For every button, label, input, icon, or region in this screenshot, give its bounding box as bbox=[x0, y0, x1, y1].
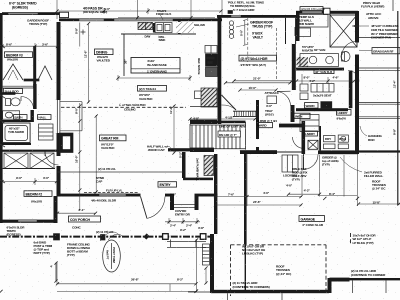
front wall right of entry door bbox=[165, 194, 174, 197]
window bedroom3 top bbox=[8, 13, 38, 15]
stair rail with balusters bbox=[233, 111, 257, 117]
stair bottom wall bbox=[168, 148, 190, 151]
bedroom2 door arc bbox=[45, 152, 59, 166]
hall closet bottom wall bbox=[279, 124, 304, 128]
window wallC bbox=[231, 15, 241, 17]
hdr bar label bbox=[239, 55, 277, 61]
wall left exterior bbox=[0, 13, 3, 223]
mudroom lockers bbox=[282, 155, 298, 172]
ward closet wall vertical x256 bbox=[256, 100, 259, 139]
ward label bbox=[305, 103, 319, 109]
wall main left vertical (dining/bedrooms divider) bbox=[57, 22, 61, 107]
center dims 7-6 4-0 bbox=[215, 196, 302, 198]
bedrm2 label bbox=[24, 191, 52, 197]
mbath bottom wall bbox=[296, 68, 344, 71]
bath label bbox=[14, 115, 28, 120]
porch beam line bbox=[0, 236, 214, 238]
wall B top main bbox=[59, 18, 222, 21]
dim vertical great rm right bbox=[173, 105, 175, 154]
dining west open rail bbox=[57, 100, 61, 133]
window wallB 2 bbox=[114, 19, 173, 21]
fridge cabinet boxes bbox=[205, 46, 217, 54]
bedroom2 dim bbox=[2, 181, 57, 183]
fireplace bbox=[60, 133, 74, 153]
wic bottom wall bbox=[296, 108, 348, 111]
laundry label bbox=[337, 110, 352, 116]
mbath dims bbox=[296, 80, 355, 82]
kitchen hdr boxed label bbox=[138, 86, 167, 92]
dim vertical dining bbox=[88, 23, 90, 103]
closet wall x349 bbox=[349, 71, 353, 109]
connector wall A-B bbox=[60, 12, 69, 17]
garage entry door arc bbox=[304, 155, 319, 170]
kitchen south edge line bbox=[190, 106, 221, 108]
entry north wall bbox=[183, 178, 213, 181]
header tick box top bbox=[228, 11, 233, 14]
right border wall bbox=[397, 11, 399, 205]
great room vault dashed centerline bbox=[61, 106, 186, 108]
dim line bedroom3 bbox=[2, 45, 58, 47]
porch dim 8-1 bbox=[58, 212, 97, 214]
cross mark bbox=[81, 31, 86, 33]
bath top wall bbox=[0, 93, 15, 95]
garage top wall thick bbox=[303, 150, 358, 154]
vanity hatched corner bbox=[297, 57, 309, 67]
dim 4ft porch bbox=[55, 263, 57, 282]
hall bath door arc bbox=[21, 97, 34, 110]
dim line below kitchen top bbox=[118, 77, 190, 79]
bedroom2 right wall bbox=[54, 196, 58, 223]
counter divider bbox=[178, 21, 181, 33]
garage sidelight ladder bbox=[203, 244, 210, 265]
ward label 2 bbox=[257, 123, 273, 128]
island bbox=[131, 58, 180, 74]
stair treads bbox=[190, 122, 246, 150]
oven stack black bbox=[206, 54, 218, 66]
tub bbox=[3, 123, 31, 143]
bedroom2 closet doors bbox=[4, 153, 28, 169]
front wall great room bbox=[58, 194, 141, 197]
bedroom2 top wall bbox=[0, 150, 58, 152]
dashed tray line vertical bbox=[276, 28, 278, 79]
label 42 van bbox=[314, 70, 334, 74]
garage roof dashed outline bbox=[231, 233, 351, 296]
cooktop hatched boxes bbox=[138, 22, 153, 29]
window wallD bbox=[302, 11, 322, 13]
bedroom3 bifold doors right bbox=[38, 66, 52, 80]
window bedroom2 front bbox=[18, 220, 37, 222]
dashed ceiling line right room bbox=[247, 18, 249, 62]
half wall leader bbox=[167, 146, 171, 148]
window label bar wallD bbox=[300, 7, 323, 11]
label dining bbox=[95, 49, 114, 55]
dim extension ticks bedroom3 bbox=[34, 43, 36, 49]
porch slab edge entry bbox=[174, 204, 195, 206]
post detail oval bbox=[103, 240, 121, 272]
breezeway lines bottom bbox=[188, 291, 211, 293]
rod label bbox=[4, 89, 23, 94]
garage label bbox=[299, 216, 325, 222]
dim line top bbox=[57, 10, 222, 12]
dim line above wall B bbox=[118, 17, 215, 19]
dim vert right room bbox=[244, 20, 246, 45]
garage door jamb lines bbox=[227, 293, 229, 300]
bottom long dims bbox=[57, 283, 197, 285]
laundry cabinet bbox=[300, 115, 319, 132]
bedrm3 label bbox=[5, 52, 33, 58]
bath storage labeled box bbox=[298, 15, 329, 28]
kitchen counter front edge bbox=[121, 33, 196, 35]
porch post near oval bbox=[101, 235, 106, 241]
column detail circles bbox=[229, 21, 233, 25]
breezeway wall vertical bbox=[244, 154, 247, 244]
entry porch column left bbox=[170, 197, 174, 211]
master toilet bbox=[341, 52, 350, 62]
attic access rect bbox=[267, 96, 277, 104]
long wall y150 segment center bbox=[240, 150, 277, 154]
stairs dn label bbox=[218, 131, 241, 137]
window front great room bbox=[99, 194, 126, 196]
shower curbless with X bbox=[330, 15, 357, 47]
hall closet wall vertical bbox=[285, 18, 287, 44]
kitchen sink double bbox=[155, 23, 172, 33]
hall label bbox=[38, 115, 52, 120]
dim vertical interior x96 bbox=[95, 115, 97, 193]
closet sill dark bbox=[24, 79, 39, 81]
entry dims bbox=[165, 221, 200, 223]
garage top dims bbox=[288, 193, 320, 195]
bath wall above tub bbox=[0, 120, 33, 122]
wall top bedroom3 bbox=[2, 12, 59, 15]
stairs dim bbox=[190, 118, 256, 120]
wall C upper right bbox=[217, 15, 298, 18]
entry steps bbox=[167, 241, 206, 243]
garage left wall lower bbox=[210, 234, 214, 293]
dining built-in buffet bbox=[60, 101, 82, 103]
entry door leaf and arc bbox=[141, 197, 148, 219]
pantry side box bbox=[195, 91, 202, 99]
wall right main vertical bbox=[355, 11, 359, 154]
closet rods right of wall bbox=[359, 37, 400, 39]
nightstand boxes bbox=[300, 84, 308, 91]
garage top wall thin right bbox=[358, 150, 400, 152]
entry west wall bbox=[182, 152, 186, 178]
garage bottom wall bbox=[211, 290, 329, 293]
wall kitchen right vertical bbox=[218, 17, 222, 124]
closet/bath wall vertical x34 bbox=[33, 46, 36, 88]
flr up lvl dashes bbox=[84, 191, 138, 193]
mbath door arc bbox=[342, 42, 356, 56]
wall D top far right bbox=[296, 11, 358, 14]
cov porch label bbox=[69, 216, 101, 222]
master vanity bbox=[300, 54, 339, 67]
linen label bbox=[293, 113, 311, 118]
pantry hatched bbox=[201, 88, 217, 107]
garage bottom step vertical bbox=[328, 278, 332, 293]
left wall ticks bbox=[0, 45, 5, 48]
laundry left wall bbox=[302, 121, 306, 154]
dim room 21ft bbox=[234, 80, 293, 82]
hall door arc closet bbox=[277, 92, 291, 106]
laundry door arc bbox=[293, 137, 302, 148]
garage bottom wall right upper bbox=[330, 278, 350, 282]
door gap mbath in right wall bbox=[355, 43, 359, 55]
garage inner dim bbox=[205, 268, 207, 285]
entry label bbox=[158, 182, 177, 187]
stairwell top band bbox=[190, 120, 217, 124]
window seat bbox=[311, 84, 334, 93]
hall bath toilet bbox=[6, 99, 11, 106]
hall bath vanity bbox=[3, 111, 20, 119]
plumbing wall ladder bbox=[204, 156, 214, 176]
linen closet shelves bbox=[39, 124, 54, 140]
entry porch column right bbox=[195, 197, 199, 211]
porch posts bbox=[54, 234, 60, 240]
porch header line bbox=[58, 171, 184, 173]
laundry chase black bbox=[308, 140, 318, 149]
grab bar label bbox=[372, 48, 400, 54]
label great rm bbox=[100, 135, 127, 141]
counter hatch right bbox=[176, 22, 194, 33]
bedroom3 bifold doors left bbox=[3, 64, 23, 80]
washer box bbox=[338, 135, 348, 142]
mbath left wall upper bbox=[296, 13, 300, 41]
wall entry right vertical bbox=[214, 154, 217, 234]
corner box mbath bbox=[324, 8, 331, 14]
bath wall below tub bbox=[0, 143, 31, 145]
bedroom2 front wall bbox=[0, 220, 54, 223]
bedroom3 closet shelf lines bbox=[0, 85, 35, 87]
laundry divider wall bbox=[319, 126, 321, 150]
dryer box bbox=[324, 136, 336, 142]
toilet alcove box bbox=[297, 28, 311, 37]
kitchen counter left edge bbox=[123, 34, 125, 76]
dim vertical great room left bbox=[79, 103, 81, 210]
chase black box bbox=[321, 102, 332, 109]
under stair door 45deg bbox=[222, 95, 237, 110]
window wallB 1 bbox=[79, 19, 104, 21]
